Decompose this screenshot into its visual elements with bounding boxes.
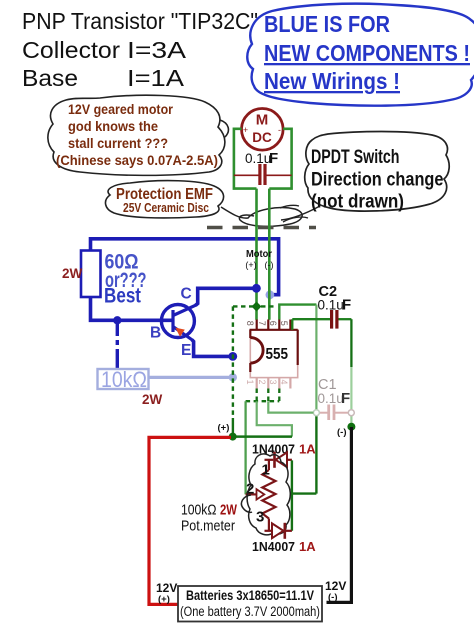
svg-text:1A: 1A	[299, 539, 316, 554]
svg-text:(One battery 3.7V 2000mah): (One battery 3.7V 2000mah)	[180, 604, 320, 619]
svg-text:12V: 12V	[156, 581, 177, 595]
svg-text:2W: 2W	[62, 266, 83, 281]
wire green pin6 to right bus	[279, 305, 316, 320]
label 100k pot	[181, 502, 238, 535]
label 12V minus	[325, 579, 346, 603]
svg-text:NEW COMPONENTS !: NEW COMPONENTS !	[264, 40, 470, 66]
capacitor C2	[292, 284, 351, 330]
wire green C2 right down to minus	[350, 319, 352, 367]
annotation balloon Protection EMF	[105, 181, 302, 227]
svg-text:2: 2	[257, 380, 267, 385]
svg-text:DC: DC	[252, 130, 272, 145]
svg-text:-: -	[278, 125, 281, 135]
svg-text:PNP Transistor "TIP32C": PNP Transistor "TIP32C"	[22, 8, 258, 34]
svg-text:10kΩ: 10kΩ	[101, 367, 147, 392]
resistor R1 60ohm	[62, 251, 147, 308]
svg-text:8: 8	[245, 321, 255, 326]
svg-text:DPDT Switch: DPDT Switch	[311, 147, 400, 168]
svg-text:1: 1	[262, 462, 270, 479]
svg-text:3: 3	[256, 509, 264, 526]
pin 8	[245, 320, 257, 330]
wire green diode mid to right bus	[292, 492, 317, 494]
title text PNP Transistor	[22, 8, 258, 91]
wire blue from 60ohm to motor minus	[91, 239, 279, 295]
svg-text:New Wirings !: New Wirings !	[264, 68, 400, 94]
wire motor plus green vertical	[255, 189, 258, 320]
dashed green pins bottom	[246, 389, 280, 402]
annotation blob BLUE IS FOR	[247, 4, 474, 106]
pin 5	[279, 320, 291, 330]
svg-text:(+): (+)	[158, 594, 170, 605]
resistor R2 10k old faded	[98, 367, 238, 407]
pin 7	[257, 320, 269, 330]
svg-text:(Chinese says 0.07A-2.5A): (Chinese says 0.07A-2.5A)	[56, 152, 218, 168]
svg-text:(not drawn): (not drawn)	[311, 192, 404, 213]
wire blue emitter	[192, 340, 233, 357]
svg-text:1: 1	[245, 380, 255, 385]
svg-text:(-): (-)	[265, 260, 274, 270]
svg-text:C: C	[181, 286, 192, 303]
wire green plus rail	[233, 435, 292, 438]
label Motor terminals	[245, 248, 273, 270]
diode D2 1N4007 bottom	[252, 523, 316, 554]
battery pack box	[178, 586, 322, 622]
svg-text:I=1A: I=1A	[127, 65, 184, 91]
wire green pin2 to C1	[268, 401, 313, 412]
wire motor loop green	[234, 129, 292, 189]
svg-text:M: M	[256, 112, 269, 129]
svg-text:(-): (-)	[337, 427, 347, 438]
svg-text:0.1u: 0.1u	[245, 151, 271, 166]
svg-text:12V geared motor: 12V geared motor	[68, 101, 173, 117]
svg-text:100kΩ: 100kΩ	[181, 502, 217, 519]
dashed green wire left of 555	[233, 306, 257, 418]
junction minus node	[347, 423, 355, 431]
wire blue down to 10k	[116, 320, 119, 331]
motor M1	[241, 109, 283, 151]
svg-text:555: 555	[266, 346, 289, 363]
diode D1 1N4007 top	[252, 442, 316, 468]
svg-text:5: 5	[279, 321, 289, 326]
pin 4 faded	[279, 378, 291, 389]
wire green diode chain vertical	[291, 460, 293, 530]
svg-text:0.1u: 0.1u	[318, 391, 344, 406]
svg-text:1N4007: 1N4007	[252, 539, 295, 554]
wire green pin1 to plus rail	[257, 401, 292, 436]
svg-text:BLUE IS FOR: BLUE IS FOR	[264, 11, 390, 37]
wire blue collector	[196, 288, 257, 305]
wire black negative supply	[327, 427, 352, 602]
svg-text:E: E	[181, 342, 191, 359]
capacitor C1 faded	[313, 377, 354, 420]
label 12V plus	[156, 581, 177, 605]
svg-text:Collector: Collector	[22, 37, 120, 63]
capacitor motor 0.1uF	[234, 150, 292, 185]
pin 3 faded	[268, 378, 280, 389]
junction diamond motor plus net	[252, 302, 262, 312]
wire green right bus down	[315, 305, 317, 413]
potentiometer R3 100k	[246, 460, 276, 531]
junction emitter node	[228, 352, 237, 361]
wire red positive supply	[149, 437, 231, 604]
svg-text:Batteries 3x18650=11.1V: Batteries 3x18650=11.1V	[186, 588, 315, 603]
wire motor minus green vertical	[268, 189, 271, 320]
svg-text:6: 6	[268, 321, 278, 326]
pin 6	[268, 320, 280, 330]
svg-text:Best: Best	[104, 285, 141, 308]
svg-text:Pot.meter: Pot.meter	[181, 518, 235, 535]
wire green to plus node	[232, 418, 234, 437]
svg-text:+: +	[243, 125, 248, 135]
annotation balloon DPDT Switch	[280, 132, 449, 223]
svg-text:(+): (+)	[218, 423, 230, 434]
svg-text:2W: 2W	[142, 392, 163, 407]
wire green wiper vertical	[244, 401, 246, 494]
pin 1 faded	[245, 378, 257, 389]
svg-text:(+): (+)	[245, 260, 256, 270]
svg-text:3: 3	[268, 380, 278, 385]
svg-text:B: B	[150, 325, 161, 342]
svg-text:1A: 1A	[299, 442, 316, 457]
svg-text:stall current ???: stall current ???	[68, 135, 168, 151]
svg-text:Base: Base	[22, 65, 78, 91]
dashed separation line	[207, 226, 316, 230]
svg-text:I=3A: I=3A	[127, 37, 186, 63]
transistor Q1 TIP32C	[150, 286, 197, 360]
junction base node	[113, 316, 121, 324]
svg-text:2W: 2W	[220, 502, 238, 519]
wire blue base	[91, 297, 172, 321]
svg-text:Motor: Motor	[246, 248, 272, 260]
svg-text:F: F	[342, 297, 351, 314]
annotation balloon 12V geared motor	[48, 95, 229, 175]
svg-text:Direction change: Direction change	[311, 170, 444, 191]
svg-text:F: F	[269, 150, 278, 167]
junction collector to motor plus	[252, 284, 261, 293]
svg-text:F: F	[341, 390, 350, 407]
svg-text:god knows the: god knows the	[68, 118, 158, 134]
junction plus node	[229, 433, 237, 441]
svg-text:12V: 12V	[325, 579, 346, 593]
IC U1 555	[250, 330, 298, 378]
svg-text:25V Ceramic Disc: 25V Ceramic Disc	[123, 201, 209, 215]
svg-text:(-): (-)	[328, 592, 338, 603]
wire green dashed right of junction	[261, 305, 277, 307]
junction old motor minus faded	[266, 290, 275, 299]
svg-text:7: 7	[257, 321, 267, 326]
pin 2 faded	[257, 378, 269, 389]
annotation blob potentiometer	[247, 454, 290, 535]
wire green over faded junction	[268, 290, 271, 301]
svg-text:4: 4	[279, 380, 289, 385]
